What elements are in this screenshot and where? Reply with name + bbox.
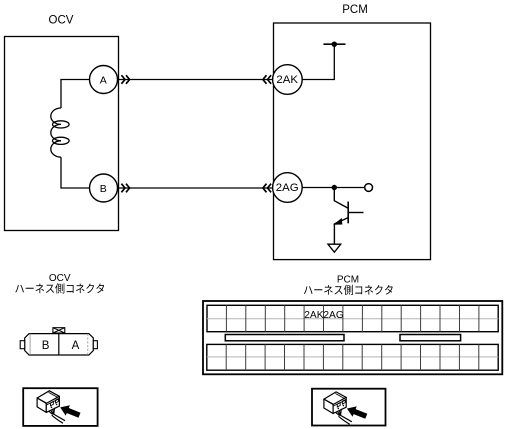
OCV box	[5, 37, 119, 231]
PCM harness connector jp label	[304, 285, 393, 295]
PCM connector outer frame	[203, 301, 502, 374]
open terminal circle	[365, 184, 373, 192]
svg-text:2AG: 2AG	[323, 310, 343, 321]
transistor base bar	[347, 202, 349, 224]
bottom cavity row	[207, 344, 498, 370]
connector chevrons at A	[121, 75, 125, 84]
power bar	[323, 43, 345, 45]
power feed wire from 2AK	[302, 44, 334, 79]
svg-text:PCM: PCM	[342, 4, 368, 16]
OCV harness connector body	[25, 334, 94, 355]
connector chevrons at 2AK	[263, 75, 267, 84]
wire B to 2AG	[116, 187, 274, 189]
connector chevrons at B	[121, 184, 125, 193]
svg-text:A: A	[72, 340, 80, 352]
left tab	[20, 341, 25, 349]
svg-text:PCM: PCM	[337, 275, 359, 286]
transistor base lead	[348, 212, 363, 214]
svg-text:2AK: 2AK	[304, 310, 323, 321]
transistor Q1 collector lead	[334, 188, 348, 209]
PCM box	[274, 23, 431, 260]
ground symbol	[328, 244, 341, 252]
wire from pin A down-left to coil	[61, 80, 90, 109]
bottom row midline	[207, 356, 498, 358]
lock flag with X	[53, 328, 65, 333]
right tab	[93, 341, 97, 349]
svg-text:OCV: OCV	[49, 273, 71, 284]
top row midline	[207, 318, 498, 320]
OCV harness connector jp label	[15, 283, 104, 293]
power junction dot	[332, 42, 337, 47]
svg-text:OCV: OCV	[49, 15, 74, 27]
inner cell boundary lines	[29, 334, 31, 355]
pin 2AG	[273, 173, 303, 203]
wire from coil to pin B	[61, 157, 90, 188]
svg-text:2AG: 2AG	[276, 182, 299, 194]
transistor emitter lead with arrow	[334, 218, 348, 245]
PCM connector pictogram	[324, 392, 368, 425]
pin 2AK	[273, 65, 303, 95]
inductor coil L	[51, 108, 61, 124]
svg-text:B: B	[100, 183, 107, 195]
svg-text:B: B	[42, 340, 50, 352]
pin B	[90, 174, 118, 202]
wire from 2AG to terminal	[302, 187, 365, 189]
top row cell dividers	[225, 305, 227, 331]
slot 1	[225, 335, 344, 341]
OCV view icon box	[23, 388, 97, 426]
pin A	[90, 66, 118, 94]
PCM view icon box	[312, 389, 386, 426]
svg-text:A: A	[100, 74, 107, 86]
junction dot node	[332, 185, 337, 190]
OCV connector pictogram	[37, 391, 81, 424]
top cavity row	[207, 305, 498, 331]
slot 2	[400, 335, 461, 341]
center divider	[58, 334, 60, 355]
connector chevrons at 2AG	[263, 184, 267, 193]
svg-text:2AK: 2AK	[276, 74, 298, 86]
bottom row cell dividers	[225, 344, 227, 370]
wire A to 2AK	[116, 79, 274, 81]
